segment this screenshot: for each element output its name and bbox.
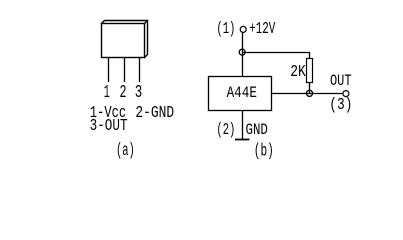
svg-text:3-OUT: 3-OUT bbox=[90, 117, 128, 136]
svg-text:2-GND: 2-GND bbox=[135, 104, 174, 123]
pin 3 lead bbox=[139, 58, 141, 83]
svg-text:+12V: +12V bbox=[249, 20, 276, 39]
svg-text:(3): (3) bbox=[329, 96, 352, 115]
svg-text:(2): (2) bbox=[216, 121, 235, 140]
junction dot at resistor/output bbox=[306, 90, 312, 96]
resistor 2K bbox=[307, 59, 313, 83]
ground bar bbox=[235, 139, 249, 141]
svg-text:3: 3 bbox=[135, 83, 143, 103]
svg-text:OUT: OUT bbox=[330, 72, 352, 90]
IC box A44E bbox=[209, 77, 272, 111]
svg-text:(b): (b) bbox=[254, 141, 274, 161]
pin 2 lead bbox=[124, 58, 126, 83]
wire: +12V terminal down to box bbox=[242, 32, 244, 76]
wire: resistor bottom to output rail bbox=[309, 83, 311, 94]
transistor package body (a) bbox=[102, 21, 148, 58]
junction dot at +12V branch bbox=[239, 49, 245, 55]
pin 1 lead bbox=[108, 58, 110, 83]
terminal circle (1) bbox=[240, 26, 246, 32]
svg-text:2: 2 bbox=[120, 83, 127, 103]
wire: box bottom to ground bbox=[242, 111, 244, 140]
terminal circle OUT bbox=[343, 91, 349, 97]
svg-text:A44E: A44E bbox=[227, 84, 257, 102]
svg-text:(1): (1) bbox=[216, 20, 235, 39]
svg-text:1: 1 bbox=[104, 83, 110, 103]
svg-text:(a): (a) bbox=[116, 141, 135, 161]
svg-text:2K: 2K bbox=[290, 63, 306, 82]
wire: box output to OUT terminal bbox=[272, 93, 344, 95]
svg-text:GND: GND bbox=[246, 121, 268, 139]
wire: branch to resistor top bbox=[243, 53, 310, 59]
